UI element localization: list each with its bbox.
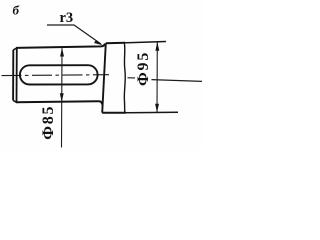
shoulder step face — [102, 43, 106, 113]
leader line r3 — [47, 25, 101, 44]
svg-text:б: б — [13, 3, 20, 18]
arrowhead Φ95 up — [155, 42, 159, 51]
shaft Φ85 bottom edge with r3 fillet into shoulder — [16, 101, 102, 104]
keyway slot (rounded slot) — [20, 65, 98, 84]
svg-text:Ф85: Ф85 — [40, 105, 57, 140]
centerline right (axis continuation) — [152, 80, 203, 82]
wavy break line — [123, 43, 126, 113]
big section Φ95 bottom edge / extension line — [102, 112, 126, 114]
centerline right short dash — [128, 77, 136, 79]
shaft left end face — [12, 50, 14, 101]
arrowhead Φ95 down — [155, 104, 159, 113]
chamfer corner bottom — [13, 100, 16, 102]
chamfer corner top — [13, 48, 16, 50]
arrowhead Φ85 down — [60, 93, 64, 102]
big section Φ95 top edge / extension line — [106, 42, 125, 44]
centerline left (dash-dot axis through keyway) — [2, 74, 110, 77]
arrowhead r3 leader — [94, 40, 103, 45]
arrowhead Φ85 up — [60, 48, 64, 57]
chamfer edge line on shaft end — [16, 48, 18, 102]
dimension line Φ95 — [156, 42, 158, 112]
shaft Φ85 outline: top edge with r3 fillet into shoulder — [16, 44, 105, 48]
svg-text:Ф95: Ф95 — [135, 51, 152, 86]
svg-text:r3: r3 — [60, 10, 74, 26]
dimension line Φ85 — [61, 48, 64, 147]
